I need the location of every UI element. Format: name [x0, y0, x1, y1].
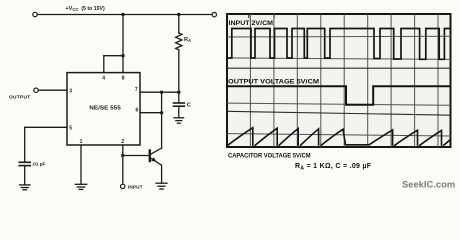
svg-text:7: 7: [135, 87, 138, 93]
wire node to capacitor C: [178, 92, 180, 102]
photo boundary line between output and capacitor sections: [227, 111, 451, 115]
graticule horizontal grid lines: [227, 36, 451, 136]
ground below pin1: [75, 184, 87, 189]
op-amp U1 555 timer box: [67, 73, 140, 145]
svg-text:2: 2: [121, 139, 124, 145]
node junction input/base: [121, 154, 124, 157]
svg-text:8: 8: [122, 76, 125, 82]
wire capacitor C2 to ground: [24, 166, 26, 184]
svg-text:RA: RA: [184, 37, 191, 43]
wire base node horizontal: [123, 155, 150, 157]
capacitor C: [174, 103, 185, 106]
svg-text:3: 3: [69, 88, 72, 94]
transistor Q1 emitter wire: [151, 158, 162, 183]
capacitor waveform sawtooth trace: [227, 128, 450, 146]
svg-text:INPUT: INPUT: [128, 184, 143, 189]
wire rail to resistor RA: [178, 15, 180, 34]
wire pin4 down to IC: [103, 56, 105, 73]
wire node to input terminal: [122, 156, 124, 185]
svg-text:1: 1: [80, 139, 83, 145]
graticule top tick marks: [249, 15, 274, 18]
capacitor C2 .01uF: [19, 162, 30, 165]
svg-text:6: 6: [136, 108, 139, 114]
transistor Q1 emitter arrow: [151, 157, 156, 162]
terminal OUTPUT: [34, 88, 38, 92]
input waveform trace: [227, 29, 450, 60]
wire pin7 node down to transistor collector: [161, 92, 163, 148]
resistor RA: [176, 33, 182, 50]
node junction RA/pin7/capC: [177, 91, 180, 94]
wire pin1 to ground: [80, 145, 82, 184]
wire rail to pin8: [122, 15, 124, 56]
svg-text:4: 4: [102, 76, 105, 82]
ground below C2: [20, 185, 31, 190]
wire RA to pin7 node: [178, 50, 180, 92]
graticule vertical grid lines: [250, 14, 438, 147]
wire pin6: [140, 112, 162, 114]
Vcc supply rail wire: [37, 14, 212, 16]
wire pin8 down to IC: [122, 56, 124, 73]
terminal Vcc right: [212, 12, 216, 16]
transistor Q1 base bar: [149, 151, 151, 162]
wire pin5: [25, 126, 67, 128]
svg-text:INPUT 2V/CM: INPUT 2V/CM: [229, 20, 274, 27]
terminal INPUT: [121, 184, 125, 188]
ground below emitter: [156, 183, 167, 189]
svg-text:5: 5: [69, 126, 72, 132]
svg-text:C: C: [187, 103, 191, 109]
node junction pin7/discharge branch: [160, 91, 163, 94]
oscilloscope graticule background: [227, 14, 451, 147]
node junction pin4/pin8 tie: [121, 54, 124, 57]
wire output pin3: [38, 89, 67, 91]
svg-text:+VCC (5 to 15V): +VCC (5 to 15V): [65, 6, 105, 12]
ground below capacitor C: [174, 118, 184, 123]
terminal Vcc left: [33, 12, 37, 16]
output waveform trace: [227, 86, 450, 105]
svg-text:OUTPUT: OUTPUT: [9, 95, 31, 101]
wire pin2 down: [122, 145, 124, 156]
svg-text:OUTPUT VOLTAGE 5V/CM: OUTPUT VOLTAGE 5V/CM: [228, 78, 319, 85]
wire pin7: [140, 91, 179, 93]
svg-text:.01 µF: .01 µF: [32, 162, 46, 168]
svg-text:NE/SE 555: NE/SE 555: [89, 105, 121, 111]
svg-text:SeekIC.com: SeekIC.com: [402, 179, 455, 190]
transistor Q1 collector wire: [151, 148, 162, 154]
node junction on rail for pins 4/8: [121, 13, 124, 16]
wire capacitor C to ground: [178, 107, 180, 118]
wire pin5 down to capacitor: [24, 127, 26, 162]
node junction on rail for RA: [177, 13, 180, 16]
photo boundary line between input and output sections: [227, 67, 451, 69]
svg-text:CAPACITOR VOLTAGE 5V/CM: CAPACITOR VOLTAGE 5V/CM: [228, 152, 311, 159]
wire pin4 tie horizontal: [104, 55, 123, 57]
node junction pin6 branch: [160, 111, 163, 114]
